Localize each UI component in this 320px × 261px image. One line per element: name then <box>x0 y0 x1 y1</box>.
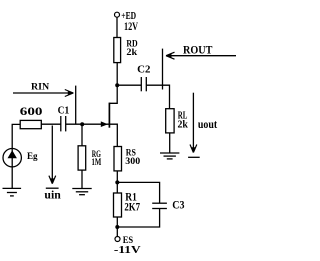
port RIN <box>75 86 77 125</box>
ground <box>3 188 22 196</box>
resistor R1 <box>114 193 122 217</box>
wire <box>116 182 118 193</box>
svg-text:RS: RS <box>126 147 136 157</box>
wire <box>117 84 141 86</box>
svg-text:12V: 12V <box>124 21 138 33</box>
svg-text:C3: C3 <box>172 200 184 212</box>
svg-text:2K7: 2K7 <box>124 201 140 213</box>
arrow uout <box>190 93 197 153</box>
svg-text:ES: ES <box>123 235 133 245</box>
resistor 600 <box>20 120 41 128</box>
transistor Q1 gate wire <box>82 123 109 125</box>
capacitor C1 <box>61 116 66 131</box>
ground <box>160 153 179 159</box>
arrow uin <box>49 126 56 184</box>
svg-text:1M: 1M <box>92 157 102 167</box>
svg-text:C1: C1 <box>58 104 70 116</box>
transistor Q1 source lead <box>109 124 117 146</box>
wire <box>116 63 118 86</box>
svg-text:-11V: -11V <box>114 245 142 256</box>
svg-text:uout: uout <box>198 119 217 131</box>
capacitor C3 <box>152 203 167 208</box>
wire <box>117 209 159 228</box>
svg-text:2k: 2k <box>178 119 189 130</box>
transistor Q1 drain lead <box>109 85 117 103</box>
svg-text:ROUT: ROUT <box>183 43 213 57</box>
svg-text:uin: uin <box>44 190 61 202</box>
reference bar uout <box>188 156 200 158</box>
wire <box>146 85 169 109</box>
wire <box>116 227 118 237</box>
transistor Q1 gate arrow <box>101 121 108 127</box>
svg-text:RIN: RIN <box>31 81 49 92</box>
wire <box>41 123 61 125</box>
wire <box>116 217 118 227</box>
port ROUT <box>162 49 164 90</box>
terminal ES <box>115 237 120 242</box>
ground <box>72 189 91 195</box>
svg-text:C2: C2 <box>137 65 150 76</box>
wire <box>116 17 118 37</box>
wire <box>81 124 83 146</box>
node source junction <box>115 180 119 184</box>
wire <box>116 171 118 183</box>
node gate junction <box>80 122 84 126</box>
svg-text:Eg: Eg <box>27 151 38 161</box>
wire <box>12 124 20 148</box>
transistor Q1 channel <box>108 103 110 128</box>
resistor RL <box>166 109 174 133</box>
resistor RG <box>78 146 86 170</box>
reference bar uin <box>46 187 59 189</box>
wire <box>169 133 171 153</box>
resistor RS <box>114 147 122 171</box>
wire <box>117 182 159 203</box>
source Eg <box>3 149 21 167</box>
resistor RD <box>114 38 121 63</box>
wire <box>81 170 83 188</box>
arrow ROUT <box>166 52 236 59</box>
arrow RIN <box>13 90 73 97</box>
wire <box>66 123 83 125</box>
capacitor C2 <box>141 77 146 91</box>
node drain junction <box>115 83 119 87</box>
svg-text:600: 600 <box>20 104 43 118</box>
wire <box>11 167 13 189</box>
node bottom junction <box>115 225 119 229</box>
svg-text:300: 300 <box>125 157 140 167</box>
terminal +ED <box>115 12 120 17</box>
svg-text:2k: 2k <box>126 48 138 58</box>
